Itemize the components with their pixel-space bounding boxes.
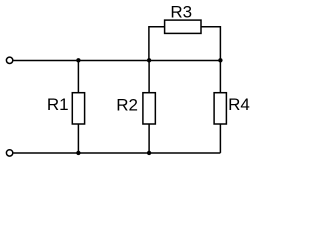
wire R2 bottom lead [148,124,150,153]
svg-text:R4: R4 [228,95,250,114]
junction dot top rail / R2 / R3 riser [147,58,151,62]
wire R2 top lead [148,60,150,93]
resistor R2 body [143,93,155,124]
svg-text:R1: R1 [47,95,69,114]
wire R3 left riser [149,27,164,61]
svg-text:R2: R2 [116,95,138,114]
junction dot top rail / R4 / R3 riser [218,58,222,62]
wire R4 bottom lead [219,124,221,153]
terminal (top-left open circle) [6,57,12,63]
wire top rail [13,59,220,61]
wire bottom rail [13,152,220,154]
wire R1 bottom lead [77,124,79,153]
junction dot bottom rail / R2 [147,151,151,155]
resistor R1 body [72,93,84,124]
wire R3 right riser [201,27,220,61]
svg-text:R3: R3 [170,2,192,21]
junction dot top rail / R1 [76,58,80,62]
terminal (bottom-left open circle) [6,150,12,156]
wire R1 top lead [77,60,79,93]
wire R4 top lead [219,60,221,93]
resistor R4 body [214,93,226,124]
resistor R3 body [165,20,201,33]
junction dot bottom rail / R1 [76,151,80,155]
